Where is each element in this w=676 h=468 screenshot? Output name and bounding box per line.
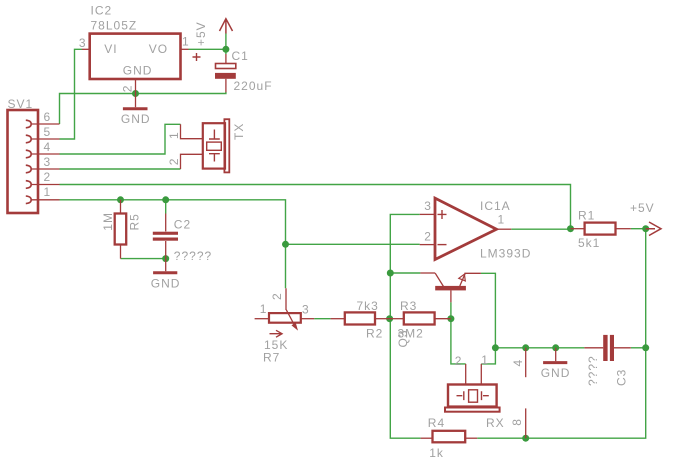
- op-amp IC1A triangle: [435, 198, 497, 259]
- C3 right stub: [614, 347, 631, 349]
- R2 body: [345, 312, 375, 324]
- SV1 pin 1 stub: [31, 199, 60, 201]
- R1 right stub: [616, 228, 631, 230]
- svg-text:R1: R1: [578, 208, 595, 222]
- RX base plate: [445, 408, 500, 412]
- TX right slab: [224, 119, 229, 172]
- junction collector node: [387, 270, 394, 277]
- op-amp minus sign: [438, 244, 447, 246]
- SV1-GROUP: [8, 97, 60, 213]
- SV1 pin 4 stub: [31, 153, 60, 155]
- op-amp plus sign: [438, 210, 447, 219]
- R7 pin 1 stub: [255, 318, 269, 320]
- +5V arrow right: [646, 222, 661, 236]
- svg-text:+5V: +5V: [194, 21, 208, 46]
- junction +5V node: [642, 225, 649, 232]
- junction R2-R3: [386, 315, 393, 322]
- wire SV1 pin3 to TX pin2: [60, 168, 181, 170]
- svg-text:2: 2: [424, 229, 432, 243]
- C1-GROUP: [193, 49, 273, 93]
- IC2 78L05Z regulator body: [90, 34, 181, 79]
- R4 body: [433, 431, 466, 443]
- wire R1 right to +5V node: [631, 228, 646, 230]
- junction C3 right: [642, 344, 649, 351]
- SV1 pin 5 stub: [31, 138, 60, 140]
- wire RX pin1 up to node: [481, 348, 495, 364]
- wire plus-input vertical rail to R4: [390, 214, 420, 438]
- C2 bottom stub: [165, 241, 167, 259]
- wire mid rail y348 left part: [495, 347, 584, 349]
- transistor emitter diagonal: [460, 273, 465, 286]
- svg-text:R3: R3: [400, 299, 417, 313]
- C2 top stub: [165, 214, 167, 232]
- wire collector link: [390, 272, 420, 274]
- wire R5 bottom to C2 bottom: [121, 258, 166, 260]
- junction pin8: [522, 435, 529, 442]
- svg-text:7k3: 7k3: [357, 299, 379, 313]
- svg-text:?????: ?????: [174, 249, 212, 263]
- ground bar: [153, 271, 177, 274]
- C1 bottom stub: [225, 79, 227, 93]
- +5V arrow up: [220, 19, 233, 34]
- R5-GROUP: [101, 200, 141, 259]
- svg-text:C2: C2: [174, 218, 191, 232]
- junction R3 right / base: [447, 315, 454, 322]
- C2 plate 1: [153, 232, 178, 235]
- R1-GROUP: [571, 208, 631, 250]
- wire emitter down: [481, 273, 496, 348]
- svg-text:3: 3: [302, 303, 310, 317]
- svg-text:1: 1: [481, 353, 489, 367]
- junction gnd right: [552, 344, 559, 351]
- C1 plus sign: [193, 53, 201, 61]
- R2 right stub: [374, 318, 390, 320]
- junction R5 top: [117, 196, 124, 203]
- wire transistor base to RX pin2: [451, 302, 466, 364]
- R2 left stub: [331, 318, 345, 320]
- op-amp minus input stub: [420, 244, 435, 246]
- R3 left stub: [390, 318, 404, 320]
- wire GND rail top (SV1 pin6 to C1 bottom): [60, 92, 226, 124]
- SV1 pin hook 1: [26, 196, 31, 204]
- junction C2 top: [162, 196, 169, 203]
- wire SV1 pin4 to TX pin1: [60, 124, 181, 154]
- JUNCTION-DOTS: [117, 46, 649, 442]
- svg-text:GND: GND: [121, 112, 151, 126]
- svg-text:C1: C1: [232, 49, 249, 63]
- svg-text:RX: RX: [486, 416, 505, 430]
- transistor emitter stub: [464, 272, 481, 274]
- wire SV1 pin1 row to pot wiper: [60, 200, 286, 288]
- wire op-amp output: [511, 228, 570, 230]
- IC2 pin 2 stub: [135, 79, 137, 94]
- ground stem: [165, 259, 167, 272]
- R4-GROUP: [421, 416, 478, 460]
- transistor base lead down: [450, 290, 452, 302]
- wire mid rail y348 right part: [631, 347, 646, 349]
- pin 8 stub: [525, 408, 527, 438]
- svg-text:Q3: Q3: [396, 329, 410, 347]
- svg-text:R7: R7: [263, 351, 280, 365]
- SV1 pin hook 5: [26, 135, 31, 143]
- svg-text:78L05Z: 78L05Z: [91, 19, 138, 33]
- pin 4 stub: [525, 348, 527, 377]
- svg-text:3: 3: [424, 199, 432, 213]
- svg-text:????: ????: [586, 355, 600, 386]
- svg-text:1: 1: [182, 35, 190, 49]
- svg-text:2: 2: [120, 85, 134, 93]
- TX crystal center rect: [207, 142, 222, 150]
- svg-text:220uF: 220uF: [234, 79, 273, 93]
- svg-text:1: 1: [44, 185, 52, 199]
- RX-GROUP: [445, 353, 505, 430]
- svg-text:4: 4: [44, 140, 52, 154]
- R3-GROUP: [390, 299, 451, 348]
- IC1-power pins: [510, 348, 526, 438]
- junction pin4: [522, 344, 529, 351]
- C1 top plate hollow: [216, 64, 236, 69]
- TX crystal bottom electrode: [209, 154, 220, 162]
- RX pin 2 stub: [465, 364, 467, 385]
- C1 top stub: [225, 54, 227, 64]
- GND-SYMBOL under IC2: [121, 94, 151, 127]
- svg-text:+5V: +5V: [630, 201, 655, 215]
- SV1 pin 6 stub: [31, 123, 60, 125]
- SV1 pin hook 6: [26, 120, 31, 128]
- RX pin 1 stub: [480, 364, 482, 385]
- svg-text:LM393D: LM393D: [480, 247, 531, 261]
- transistor bar: [435, 286, 466, 291]
- transistor emitter arrow hollow: [459, 274, 466, 281]
- wire IC2 VO to +5V node: [189, 34, 227, 55]
- svg-text:1: 1: [498, 213, 506, 227]
- R7 adjust arrow icon: [270, 330, 283, 337]
- svg-text:2: 2: [455, 354, 463, 368]
- svg-text:GND: GND: [541, 366, 571, 380]
- wire pot pin3 to R2: [314, 318, 330, 320]
- svg-text:5k1: 5k1: [578, 236, 600, 250]
- svg-text:GND: GND: [151, 277, 181, 291]
- IC2 pin 3 stub: [82, 48, 90, 50]
- svg-text:IC1A: IC1A: [480, 199, 511, 213]
- RX body box: [448, 385, 497, 407]
- R1 body: [585, 223, 616, 235]
- svg-text:8: 8: [510, 418, 524, 426]
- R7-POT-GROUP: [255, 288, 315, 364]
- C2-GROUP: [153, 214, 212, 264]
- junction IC2 gnd: [132, 90, 139, 97]
- svg-text:C3: C3: [614, 369, 628, 386]
- junction minus input: [282, 241, 289, 248]
- svg-text:2: 2: [167, 158, 181, 166]
- svg-text:3: 3: [44, 155, 52, 169]
- TX pin 1 lead: [181, 124, 203, 138]
- R7 body: [269, 313, 301, 323]
- svg-text:5: 5: [44, 125, 52, 139]
- OPAMP-GROUP: [420, 198, 532, 260]
- C1 bottom plate filled: [215, 73, 236, 79]
- svg-text:1: 1: [167, 131, 181, 139]
- SV1 pin hook 2: [26, 181, 31, 189]
- C3 left stub: [584, 347, 603, 349]
- svg-text:1k: 1k: [429, 446, 444, 460]
- op-amp plus input stub: [420, 213, 435, 215]
- TRANSISTOR-GROUP: [420, 273, 481, 302]
- C2 plate 2: [153, 238, 178, 241]
- TX body box: [203, 123, 225, 168]
- R7 pin 3 stub: [301, 318, 314, 320]
- R5 top stub: [120, 200, 122, 214]
- SV1 connector body: [8, 110, 39, 213]
- R7 wiper stem: [285, 288, 287, 310]
- svg-text:1: 1: [260, 302, 268, 316]
- junction C2 bottom: [162, 255, 169, 262]
- svg-text:6: 6: [44, 110, 52, 124]
- SV1 pin 2 stub: [31, 184, 60, 186]
- wire +5V rail right side down to bottom rail: [477, 229, 646, 439]
- C3-GROUP: [584, 335, 630, 386]
- svg-text:R2: R2: [366, 327, 383, 341]
- R5 body: [115, 214, 127, 245]
- svg-text:TX: TX: [232, 123, 246, 140]
- TX-GROUP: [167, 119, 246, 172]
- svg-text:VI: VI: [104, 42, 117, 56]
- ground bar: [123, 107, 148, 110]
- ground bar: [543, 361, 567, 364]
- SV1 pin hook 4: [26, 150, 31, 158]
- PLUS5V-TOP symbol: [194, 19, 233, 46]
- GND-SYMBOL right: [541, 348, 571, 380]
- svg-text:SV1: SV1: [8, 97, 34, 111]
- svg-text:2: 2: [44, 170, 52, 184]
- R4 right stub: [465, 437, 477, 439]
- WIRES-GROUP: [60, 34, 646, 439]
- transistor collector diagonal: [435, 273, 443, 286]
- wire node to op-amp minus input: [286, 243, 420, 245]
- svg-text:4: 4: [511, 359, 525, 367]
- IC2-GROUP: [79, 4, 190, 94]
- IC2 pin 1 stub: [181, 48, 189, 50]
- TX pin 2 lead: [181, 154, 203, 169]
- RX crystal right electrode: [482, 391, 489, 400]
- R7 wiper arrowhead: [292, 322, 299, 330]
- svg-text:VO: VO: [149, 42, 168, 56]
- PLUS5V-RIGHT symbol: [630, 201, 661, 236]
- TX crystal top electrode: [209, 130, 220, 140]
- op-amp output stub: [497, 228, 512, 230]
- wire SV1 pin2 row to R1 node: [60, 185, 571, 229]
- RX crystal left electrode: [457, 391, 464, 400]
- R5 bottom stub: [120, 245, 122, 259]
- SV1 pin hook 3: [26, 165, 31, 173]
- svg-text:R4: R4: [428, 416, 445, 430]
- C3 plate 1: [603, 335, 607, 361]
- R4 left stub: [421, 437, 433, 439]
- ground stem: [555, 348, 557, 361]
- R3 body: [404, 312, 435, 324]
- junction output R1: [567, 225, 574, 232]
- transistor collector stub: [420, 272, 435, 274]
- GND-SYMBOL under C2: [151, 259, 181, 291]
- svg-text:IC2: IC2: [91, 4, 113, 18]
- SV1 pin 3 stub: [31, 168, 60, 170]
- R3 right stub: [435, 318, 451, 320]
- svg-text:3: 3: [79, 36, 87, 50]
- R7 wiper diagonal: [286, 310, 295, 327]
- svg-text:2: 2: [270, 292, 284, 300]
- svg-text:R5: R5: [127, 213, 141, 230]
- junction VO/+5V/C1: [222, 46, 229, 53]
- C3 plate 2: [610, 335, 614, 361]
- junction emitter RX node: [492, 344, 499, 351]
- wire C2 top: [165, 200, 167, 214]
- wire SV1 pin5 to IC2 VI: [60, 49, 83, 139]
- RX crystal center rect: [469, 390, 478, 402]
- ground stem: [135, 94, 137, 108]
- R1 left stub: [571, 228, 585, 230]
- R2-GROUP: [331, 299, 390, 341]
- svg-text:1M: 1M: [101, 212, 115, 231]
- svg-text:GND: GND: [123, 64, 153, 78]
